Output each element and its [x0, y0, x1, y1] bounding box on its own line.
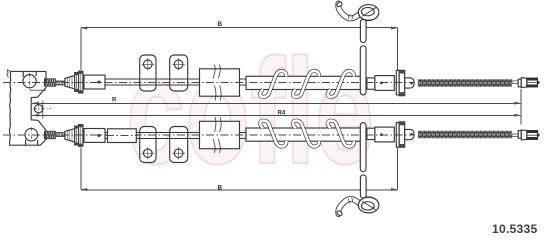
svg-text:10.5335: 10.5335 [492, 222, 537, 236]
svg-text:R: R [112, 97, 117, 103]
svg-text:B: B [218, 21, 223, 28]
svg-text:B: B [218, 185, 223, 192]
svg-text:cofle: cofle [126, 27, 374, 195]
svg-text:R4: R4 [278, 110, 286, 116]
